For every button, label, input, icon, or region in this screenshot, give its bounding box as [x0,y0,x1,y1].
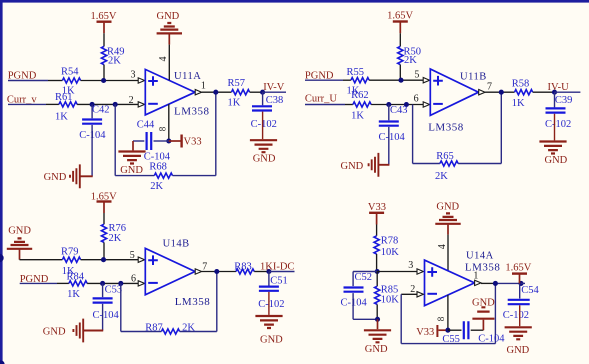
pin 5 arrow U11B [423,78,429,83]
wire node to C43 [388,105,390,121]
wire to R62 [345,104,353,106]
svg-text:U14B: U14B [163,239,190,250]
wire C51 to ground [268,292,270,315]
power 1.65V (D) [505,263,531,284]
wire power to R49 [103,33,105,46]
svg-text:GND: GND [157,11,180,22]
net label IV-V [263,82,286,93]
capacitor C53 [93,285,123,322]
svg-text:GND: GND [436,202,459,213]
pin 6 arrow U11B [423,102,429,107]
svg-text:1K: 1K [55,111,68,122]
svg-text:GND: GND [365,344,388,355]
node junction R76/R79 [101,257,106,262]
capacitor C38 [251,95,284,130]
wire output [481,282,495,284]
svg-text:1.65V: 1.65V [91,11,117,22]
pin 8 wire [447,295,449,330]
svg-text:R58: R58 [512,79,530,90]
op-amp U11B [428,69,487,133]
wire feedback bottom left segment [115,175,154,177]
ground (battery style) under C43 [341,153,390,177]
svg-text:5: 5 [414,70,419,81]
svg-text:C51: C51 [270,275,288,286]
wire node left to C52 [353,271,377,273]
svg-text:2K: 2K [150,181,163,192]
bullet left margin [0,254,4,263]
wire power to R50 [399,33,401,46]
svg-text:U11B: U11B [460,72,487,83]
wire C54 to ground [519,305,521,326]
svg-text:IV-U: IV-U [548,82,570,93]
svg-text:2K: 2K [108,56,121,67]
pin 8 wire [168,104,170,141]
net label IV-U [548,82,581,93]
node output junction [493,281,498,286]
power 1.65V (B) [387,10,413,33]
wire R61 to pin 2 [77,103,138,105]
svg-text:C-104: C-104 [144,151,171,162]
node output junction [213,90,218,95]
wire feedback up to output [494,283,496,343]
node bottom junction R85/C52 [375,317,380,322]
resistor R85 [375,272,400,320]
resistor R68 [149,162,172,192]
wire C44 corner down [132,141,134,150]
svg-text:R57: R57 [228,78,246,89]
svg-text:C44: C44 [137,120,155,131]
pin 2 arrow U14A [417,292,423,297]
wire C44 left lead [133,140,144,142]
wire feedback bottom right segment [173,175,216,177]
svg-text:R87: R87 [145,322,163,333]
window chrome top edge [0,0,589,3]
ground under R85 [364,330,391,355]
wire feedback bottom left segment [413,163,440,165]
svg-text:V33: V33 [416,327,434,338]
wire Curr_v lead [8,103,46,105]
node IV-U junction [552,90,557,95]
svg-text:V33: V33 [184,136,202,147]
wire R83 to node [254,271,269,273]
node C54 junction [518,281,523,286]
svg-text:R68: R68 [149,162,167,173]
svg-text:R62: R62 [351,90,369,101]
svg-text:C-104: C-104 [478,334,505,345]
wire R62 to pin 6 [371,104,423,106]
svg-text:R79: R79 [61,247,79,258]
wire to R55 [343,79,351,81]
svg-text:R54: R54 [61,67,79,78]
wire power to R76 [103,213,105,224]
ground GND input (left) [7,225,32,259]
wire node to C42 [91,104,93,118]
node output junction [499,90,504,95]
pin 4 wire [168,45,170,81]
resistor R79 [61,247,81,277]
power V33 top [368,202,386,225]
svg-text:2: 2 [410,284,415,295]
svg-text:C42: C42 [92,105,110,116]
svg-text:R55: R55 [347,67,365,78]
wire feedback node down [114,104,116,175]
capacitor C42 [79,105,109,142]
ground GND top (pin 4) [435,202,460,235]
node feedback junction [113,102,118,107]
svg-text:GND: GND [253,154,276,165]
svg-text:1K: 1K [228,97,241,108]
wire to R54 [48,80,62,82]
wire C53 to ground [102,304,104,331]
svg-text:Curr_U: Curr_U [305,93,337,104]
svg-text:GND: GND [472,298,495,309]
svg-text:GND: GND [120,165,143,176]
wire node to C38 [262,92,264,105]
svg-text:R61: R61 [55,92,73,103]
pin 1 output arrow [475,280,481,285]
window chrome left edge [0,0,3,364]
node junction before feedback [404,102,409,107]
svg-text:8: 8 [158,126,168,131]
svg-text:3: 3 [131,70,136,81]
svg-text:2: 2 [129,95,134,106]
node C53 junction [100,281,105,286]
svg-text:U14A: U14A [466,251,494,262]
node junction R49/R54 [101,78,106,83]
wire C38 to ground [262,112,264,140]
svg-text:GND: GND [43,327,66,338]
pin 2 arrow U11A [138,102,144,107]
wire R79 to pin 5 [81,259,139,261]
wire C43 to ground [388,127,390,165]
ground (battery style) under C42 [44,164,93,188]
svg-text:1K: 1K [67,289,80,300]
svg-text:5: 5 [130,250,135,261]
wire node to ground [377,319,379,329]
svg-text:C-102: C-102 [258,299,284,310]
wire to R61 [46,103,59,105]
ground under C44 [118,152,145,177]
resistor R83 [234,262,254,274]
wire node to C39 [554,92,556,107]
node output junction [214,269,219,274]
svg-text:LM358: LM358 [428,121,464,133]
svg-text:Curr_v: Curr_v [7,94,37,105]
svg-text:1.65V: 1.65V [505,263,531,274]
wire feedback bottom [401,343,495,345]
svg-text:C-102: C-102 [503,310,529,321]
wire feedback up to output [215,92,217,175]
resistor R84 [67,271,88,300]
svg-text:6: 6 [414,93,419,104]
wire node to C54 [519,283,521,298]
svg-text:C39: C39 [555,95,573,106]
svg-text:PGND: PGND [8,70,37,81]
resistor R54 [61,67,81,97]
svg-text:C38: C38 [266,95,284,106]
svg-text:10K: 10K [381,247,400,258]
ground above C55 [472,298,495,319]
power V33 bottom [416,325,445,338]
resistor R61 [55,92,77,122]
capacitor C43 [379,105,408,143]
wire stub right of node [521,282,525,284]
ground GND top (pin 4) [157,11,183,44]
node pin8/V33/C55 junction [445,328,450,333]
capacitor C44 [137,120,171,163]
resistor R62 [351,90,371,121]
svg-text:LM358: LM358 [174,106,210,118]
resistor R50 [398,46,421,66]
svg-text:C-104: C-104 [341,297,368,308]
svg-text:C-102: C-102 [251,119,277,130]
svg-text:6: 6 [131,274,136,285]
svg-text:7: 7 [487,82,492,93]
wire R55 to pin 5 [369,79,423,81]
pin 4 wire [447,235,449,272]
svg-text:2K: 2K [435,171,448,182]
svg-text:C54: C54 [521,285,539,296]
svg-text:C-102: C-102 [545,119,571,130]
svg-text:LM358: LM358 [465,261,501,273]
wire feedback up to output [500,92,502,163]
svg-text:C52: C52 [355,272,373,283]
svg-text:U11A: U11A [174,71,201,82]
svg-text:8: 8 [436,316,446,321]
wire feedback node down [120,283,122,331]
ground under C39 [539,142,567,166]
ground under C54 [505,327,532,356]
wire node to C53 [102,283,104,297]
pin 7 output arrow [195,269,201,274]
resistor R76 [101,223,126,244]
svg-text:R84: R84 [67,271,85,282]
svg-text:R78: R78 [381,236,399,247]
capacitor C51 [258,275,288,310]
wire output to node [202,91,232,93]
pin 6 arrow U14B [138,281,144,286]
svg-text:1K: 1K [512,98,525,109]
svg-text:R65: R65 [436,151,454,162]
node feedback junction [118,281,123,286]
power V33 (A) [169,135,202,148]
node C43 junction [386,102,391,107]
ground under C51 [255,316,283,346]
wire C42 to ground [91,125,93,176]
wire R49 to node [103,65,105,81]
op-amp U11A [145,69,209,117]
net label 1KI-DC [260,262,295,273]
resistor R78 [374,236,399,258]
wire node to pin 3 [377,271,417,273]
node 1KI-DC junction [266,269,271,274]
svg-text:GND: GND [260,335,283,346]
svg-text:R83: R83 [234,262,252,273]
capacitor C39 [545,95,572,130]
svg-text:1K: 1K [351,110,364,121]
wire pin 2 left [401,293,417,295]
pin 1 output arrow [195,90,201,95]
wire power to R78 [376,225,378,236]
svg-text:1: 1 [473,271,478,282]
wire feedback bottom right segment [458,163,501,165]
wire C52 bottom [352,293,354,319]
node C42 junction [90,102,95,107]
node junction R78/R85/C52 [375,269,380,274]
pin 5 arrow U14B [138,257,144,262]
power 1.65V (A) [91,11,117,33]
svg-text:V33: V33 [368,202,386,213]
op-amp U14B [145,239,210,308]
capacitor C55 [442,321,505,345]
wire feedback bottom right segment [180,331,217,333]
power 1.65V (C) [91,192,117,213]
wire GND to R79 [20,259,63,261]
node junction R50/R55 [398,78,403,83]
node pin8/C44/V33 junction [166,138,171,143]
svg-text:C-104: C-104 [379,132,406,143]
svg-text:1.65V: 1.65V [387,10,413,21]
wire feedback up to output [216,272,218,332]
wire PGND lead [20,282,57,284]
resistor R87 [145,322,195,334]
wire R50 to node [399,65,401,81]
wire C52 top [352,272,354,287]
op-amp U14A [425,251,501,306]
wire feedback down [400,294,402,343]
svg-text:GND: GND [44,172,67,183]
svg-text:LM358: LM358 [175,296,211,308]
node IV-V junction [260,90,265,95]
wire output to node [485,91,514,93]
wire C39 to ground [554,114,556,141]
svg-text:4: 4 [158,57,169,62]
svg-text:2K: 2K [404,55,417,66]
wire R58 to node [533,91,555,93]
wire output node to C54 node [495,282,521,284]
wire R78 to node [376,254,378,272]
wire PGND lead [305,79,343,81]
wire R54 to pin 3 [81,80,139,82]
svg-text:C55: C55 [442,334,460,345]
svg-text:2K: 2K [109,233,122,244]
wire R76 to node [103,242,105,259]
wire C44 right lead [154,140,169,142]
wire C52 bottom to node [353,318,377,320]
capacitor C54 [503,285,540,321]
svg-text:C53: C53 [105,285,123,296]
svg-text:GND: GND [8,225,31,236]
svg-text:C43: C43 [390,105,408,116]
resistor R65 [435,151,458,182]
svg-text:C-104: C-104 [93,310,120,321]
wire node to C51 [268,272,270,286]
wire output to node [202,271,236,273]
svg-text:3: 3 [408,260,413,271]
resistor R55 [347,67,370,97]
capacitor C52 [341,272,373,308]
svg-text:1: 1 [201,81,206,92]
svg-text:GND: GND [545,155,568,166]
wire feedback bottom left segment [121,331,162,333]
svg-text:10K: 10K [381,295,400,306]
wire node to C55 [448,329,462,331]
pin 7 output arrow [479,90,485,95]
svg-text:GND: GND [507,345,530,356]
wire PGND lead [8,80,48,82]
wire feedback down [412,105,414,164]
svg-text:IV-V: IV-V [263,82,285,93]
wire Curr_U lead [305,104,345,106]
svg-text:GND: GND [341,161,364,172]
pin 3 arrow U11A [138,78,144,83]
ground (battery style) under C53 [43,319,103,343]
resistor R58 [512,79,533,109]
resistor R49 [101,46,124,66]
wire R57 to node [250,91,263,93]
pin 3 arrow U14A [417,269,423,274]
wire to R84 [57,282,69,284]
wire up to ground [482,320,484,331]
svg-text:4: 4 [437,244,448,249]
wire R84 to pin 6 [87,282,138,284]
ground under C38 [250,140,277,164]
resistor R57 [228,78,250,109]
bullet bottom-left corner [0,360,5,364]
wire C55 to ground corner [471,329,484,331]
